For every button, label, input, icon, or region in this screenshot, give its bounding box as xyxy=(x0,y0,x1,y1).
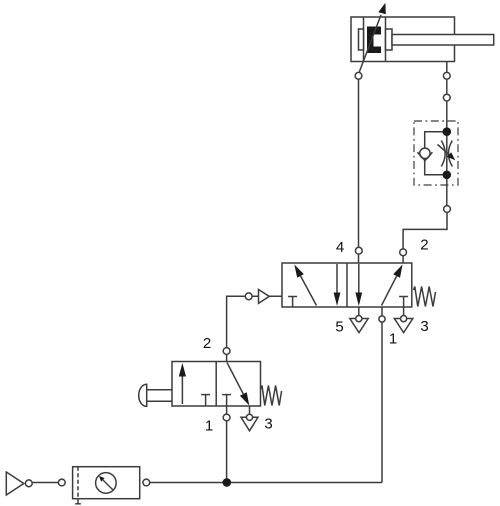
air supply source xyxy=(6,472,24,495)
valve 3/2 left box arrow 1-2 xyxy=(181,375,183,404)
valve 5/2 port 3 stub xyxy=(403,307,405,319)
valve 5/2 port 5 stub xyxy=(358,307,360,319)
valve 5/2 pilot port xyxy=(245,293,252,300)
valve 3/2 right box arrow 2-3 xyxy=(227,363,243,395)
flow control bottom port xyxy=(444,206,451,213)
valve 3/2 divider xyxy=(215,362,217,407)
air supply port xyxy=(25,480,32,487)
valve 3/2 left box blocked port 3 xyxy=(201,394,210,396)
cylinder right cushion bushing xyxy=(386,29,393,50)
svg-text:2: 2 xyxy=(420,237,428,254)
svg-text:3: 3 xyxy=(264,415,272,432)
valve 3/2 push button xyxy=(147,389,172,391)
valve 5/2 pilot triangle xyxy=(259,290,270,304)
valve 5/2 left box blocked port 5 xyxy=(288,296,297,298)
valve 5/2 divider xyxy=(346,263,348,307)
valve 5/2 left box arrow 2-3 xyxy=(336,264,338,294)
valve 3/2 port 3 stub xyxy=(249,406,251,417)
valve 5/2 exhaust 5 xyxy=(350,319,368,333)
wire: cylinder right port down through flow control xyxy=(446,62,448,210)
valve 5/2 right box blocked port 3 xyxy=(399,296,408,298)
valve 3/2 body xyxy=(172,362,261,407)
valve 5/2 port 4 xyxy=(355,247,362,254)
service unit box xyxy=(73,467,140,499)
valve 5/2 right box arrow 4-5 xyxy=(358,264,360,294)
service unit drain xyxy=(77,499,79,504)
cylinder body xyxy=(351,17,455,62)
wire: source to service unit xyxy=(29,482,62,484)
wire: 3/2 port 1 down to supply line xyxy=(226,418,228,483)
valve 3/2 port 1 xyxy=(226,406,228,418)
cylinder cushion adjust arrow xyxy=(359,15,381,73)
cylinder left cushion bushing xyxy=(359,29,364,50)
valve 3/2 right box blocked port 1 xyxy=(222,394,231,396)
wire: 3/2 port 2 up to 5/2 pilot xyxy=(227,296,282,351)
service unit right port xyxy=(143,479,150,486)
flow control valve box xyxy=(414,121,458,185)
cylinder right port xyxy=(443,72,450,79)
cylinder piston xyxy=(363,17,365,62)
flow control top node xyxy=(443,127,452,136)
cylinder piston rod xyxy=(392,35,494,46)
service unit regulator gauge xyxy=(96,473,117,494)
wire: flow control bottom to valve port 2 xyxy=(403,209,447,263)
valve 5/2 left box arrow 1-4 xyxy=(301,276,317,306)
valve 3/2 return spring xyxy=(261,386,282,406)
valve 5/2 right box arrow 1-2 xyxy=(382,276,397,305)
wire: cylinder left port to valve port 4 xyxy=(358,76,360,263)
check valve V1 xyxy=(420,148,430,158)
flow control top port xyxy=(443,94,450,101)
valve 5/2 body xyxy=(282,263,412,307)
svg-text:1: 1 xyxy=(205,417,213,434)
svg-text:2: 2 xyxy=(203,335,211,352)
valve 3/2 port 2 xyxy=(226,351,228,362)
wire: supply line horizontal xyxy=(146,482,382,484)
throttle adjust arrow xyxy=(438,145,450,155)
svg-text:4: 4 xyxy=(336,239,344,256)
svg-text:1: 1 xyxy=(389,330,397,347)
valve 5/2 exhaust 3 xyxy=(394,319,412,333)
svg-text:5: 5 xyxy=(335,318,343,335)
cylinder magnet xyxy=(367,27,381,54)
throttle arcs xyxy=(441,141,445,167)
valve 3/2 exhaust 3 xyxy=(241,417,258,431)
flow control bypass wire xyxy=(425,132,447,175)
valve 5/2 port 1 xyxy=(379,316,385,322)
cylinder left port xyxy=(355,72,362,79)
valve 5/2 port 2 xyxy=(400,249,407,256)
flow control bottom node xyxy=(443,171,452,180)
valve 5/2 return spring xyxy=(414,287,436,307)
junction supply node xyxy=(223,478,232,487)
wire: supply riser to 5/2 port 1 xyxy=(381,307,383,483)
svg-text:3: 3 xyxy=(420,318,428,335)
service unit filter dashed line xyxy=(77,467,79,499)
service unit left port xyxy=(58,479,65,486)
